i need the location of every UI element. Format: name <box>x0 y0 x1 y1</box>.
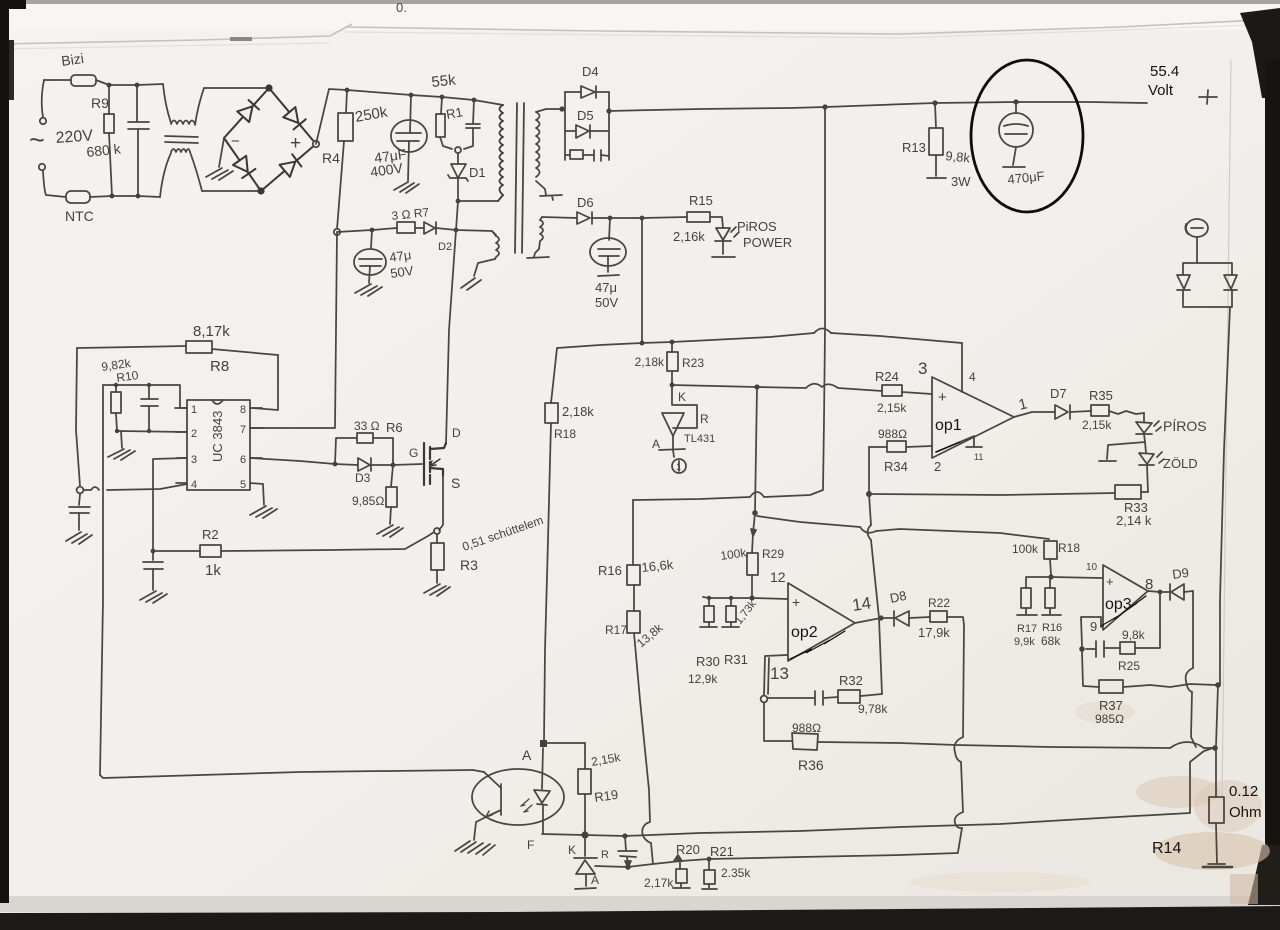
node 13 open <box>761 696 768 703</box>
resistor R18b 2.18k <box>545 348 558 423</box>
svg-text:R18: R18 <box>1058 541 1080 555</box>
capacitor C11 <box>768 691 823 705</box>
bottom rail to optocoupler <box>100 770 473 778</box>
op-amp op3 <box>1103 565 1148 630</box>
Vcc wire R4 node down to pin 7 <box>250 232 337 428</box>
EMI choke L1 <box>160 84 204 197</box>
capacitor C1 <box>128 85 149 196</box>
svg-text:9: 9 <box>1090 619 1097 634</box>
diode D7 <box>1014 405 1070 419</box>
svg-text:2,15k: 2,15k <box>1082 418 1112 432</box>
TL431 U4 <box>574 835 597 889</box>
diode D10 left <box>1177 275 1190 290</box>
svg-text:100k: 100k <box>1012 542 1039 556</box>
resistor R4 250k <box>337 90 353 229</box>
svg-text:R29: R29 <box>762 547 784 561</box>
wire R8 right to pin 8 <box>252 355 278 410</box>
op1 pointer <box>936 442 960 452</box>
resistor R13 9.8k 3W <box>927 103 946 178</box>
node bridge plus <box>313 141 319 147</box>
svg-text:R17: R17 <box>1017 623 1037 635</box>
svg-text:5: 5 <box>240 479 246 491</box>
pin 3 wire <box>153 458 187 488</box>
svg-text:68k: 68k <box>1041 634 1061 648</box>
svg-text:988Ω: 988Ω <box>792 721 821 735</box>
AC line terminal <box>40 80 46 124</box>
resistor R24 2.15k <box>882 385 932 396</box>
D9 drop wire <box>1191 591 1196 747</box>
svg-text:R4: R4 <box>322 150 340 166</box>
svg-text:A: A <box>591 873 599 887</box>
transformer aux winding secondary-side <box>527 217 549 258</box>
source node <box>434 528 440 534</box>
svg-text:R20: R20 <box>676 842 700 857</box>
transformer core <box>515 103 524 253</box>
svg-text:G: G <box>409 446 418 460</box>
svg-text:33 Ω: 33 Ω <box>354 419 380 433</box>
resistor R3 0.51ohm <box>424 534 450 596</box>
wire 55V vertical x825 <box>633 107 825 500</box>
svg-text:op2: op2 <box>791 624 818 641</box>
svg-text:R37: R37 <box>1099 698 1123 713</box>
svg-text:8: 8 <box>240 404 246 416</box>
resistor R25 9.8k <box>1105 642 1135 654</box>
svg-text:R32: R32 <box>839 673 863 688</box>
diode D6 <box>542 212 610 224</box>
opto LED anode node <box>542 748 543 789</box>
svg-text:R31: R31 <box>724 652 748 667</box>
svg-text:R21: R21 <box>710 844 734 859</box>
svg-text:POWER: POWER <box>743 235 792 250</box>
op2 inverting pointer <box>790 631 845 659</box>
svg-text:R3: R3 <box>460 557 478 573</box>
wire R23 node to R24 <box>672 384 882 391</box>
resistor R27 9.9k <box>1017 588 1037 615</box>
R37 branch <box>1082 652 1099 687</box>
svg-text:R1: R1 <box>445 104 464 122</box>
fuse F1 "Bizi" <box>44 75 109 86</box>
svg-text:2,14 k: 2,14 k <box>1116 513 1152 528</box>
svg-text:0.: 0. <box>396 0 407 15</box>
diode D9 <box>1160 584 1193 600</box>
svg-text:UC 3843: UC 3843 <box>210 411 225 462</box>
wire aux to Vcc drop <box>641 218 643 343</box>
svg-text:ZÖLD: ZÖLD <box>1163 456 1198 471</box>
node input junctions <box>107 83 141 199</box>
svg-text:8: 8 <box>1145 576 1153 593</box>
timing cap C7 <box>140 488 167 603</box>
svg-text:2,18k: 2,18k <box>562 404 594 419</box>
diode D11 right <box>1224 275 1237 290</box>
resistor R7 3ohm <box>397 222 415 233</box>
svg-text:47μ: 47μ <box>595 280 617 295</box>
svg-text:10: 10 <box>1086 562 1098 573</box>
LED piros <box>1136 413 1161 434</box>
zener D1 <box>448 153 468 201</box>
svg-text:A: A <box>522 747 532 763</box>
svg-text:R36: R36 <box>798 757 824 773</box>
opto collector lead <box>473 770 484 772</box>
MOSFET Q1 <box>424 443 446 485</box>
diode D3 <box>335 458 393 471</box>
rectifier block frame D4/D5 <box>565 92 609 160</box>
svg-text:+: + <box>938 389 947 406</box>
resistor R30 12.9k <box>700 598 717 627</box>
node under R4 <box>334 229 340 235</box>
ground at bridge minus <box>206 138 233 180</box>
svg-text:D4: D4 <box>582 64 599 79</box>
R32/cap feedback of op2 <box>861 694 882 696</box>
IC U1 UC3843 <box>175 400 263 490</box>
transformer aux winding primary-side <box>461 231 499 290</box>
sense divider wire top <box>557 333 962 348</box>
TL431 U3 <box>659 385 697 473</box>
svg-text:9,9k: 9,9k <box>1014 636 1035 648</box>
ground at pin 5 <box>250 484 277 518</box>
svg-text:A: A <box>652 437 660 451</box>
snubber capacitor C3 <box>464 100 480 149</box>
svg-text:7: 7 <box>240 424 246 436</box>
svg-text:Bizi: Bizi <box>60 50 85 69</box>
svg-text:R: R <box>601 849 609 861</box>
svg-text:R23: R23 <box>682 356 704 370</box>
resistor R10 <box>111 385 121 431</box>
svg-text:R16: R16 <box>598 563 622 578</box>
resistor R14 shunt 0.12ohm <box>1203 748 1232 867</box>
svg-text:9,78k: 9,78k <box>858 702 888 716</box>
drain wire down <box>446 201 458 444</box>
node R1/C3 to D1 <box>455 147 461 153</box>
capacitor C2 47uF 400V <box>391 95 427 193</box>
svg-text:R17: R17 <box>605 623 627 637</box>
opto LED cathode lead <box>542 806 544 833</box>
resistor R15 <box>687 212 723 228</box>
resistor R2 1k <box>153 532 434 557</box>
svg-text:50V: 50V <box>595 295 618 310</box>
capacitor C9 47u 50V aux <box>354 230 386 296</box>
op3 inverting pointer <box>1101 596 1146 626</box>
marker ellipse around C10 <box>971 60 1083 212</box>
svg-text:4: 4 <box>191 479 197 491</box>
svg-text:TL431: TL431 <box>684 433 715 445</box>
resistor R34 988ohm <box>869 441 932 452</box>
return vertical to shunt <box>1216 685 1218 746</box>
wire zold to R33 <box>1147 465 1148 492</box>
resistor R22 17.9k <box>930 611 964 625</box>
svg-text:12,9k: 12,9k <box>688 672 718 686</box>
diode D2 <box>415 222 496 235</box>
capacitor C8 <box>618 836 637 870</box>
svg-text:988Ω: 988Ω <box>878 427 907 441</box>
resistor R19 2.15k <box>578 743 591 833</box>
wire R18b drop to opto anode <box>544 423 551 740</box>
node under R23 drop <box>755 387 757 511</box>
svg-text:~: ~ <box>29 125 45 155</box>
stub to common tap <box>1099 434 1145 461</box>
pin 4 wire to timing node <box>84 484 187 490</box>
ground under R10 <box>108 431 135 460</box>
svg-text:D: D <box>452 426 461 440</box>
capacitor C6 at pin4 node <box>66 494 92 544</box>
minus output terminal <box>1185 219 1208 263</box>
resistor R35 2.15k <box>1070 405 1144 416</box>
node R23 bottom <box>670 383 675 388</box>
diode D4 <box>581 86 596 98</box>
clamp row wire 3ohm/D2 <box>337 228 397 232</box>
svg-text:D2: D2 <box>438 241 452 253</box>
resistor R31 1.73k <box>722 598 739 627</box>
resistor R32 9.78k <box>824 690 860 703</box>
pin 6 wire <box>250 458 335 464</box>
resistor R20 2.17k <box>673 861 690 888</box>
resistor R36 988ohm <box>792 733 1213 750</box>
svg-text:2,16k: 2,16k <box>673 229 705 244</box>
svg-text:−: − <box>231 133 240 150</box>
diode D5 <box>576 125 590 138</box>
svg-text:D3: D3 <box>355 471 371 485</box>
resistor R23 2.18k <box>667 342 678 383</box>
snubber resistor in block <box>570 150 583 159</box>
resistor R26 68k <box>1042 577 1061 615</box>
svg-text:D1: D1 <box>469 165 486 180</box>
svg-text:R30: R30 <box>696 654 720 669</box>
wire R29 node to op2 plus <box>752 598 788 599</box>
svg-text:Ohm: Ohm <box>1229 804 1262 821</box>
svg-text:S: S <box>451 475 460 491</box>
svg-text:9,8k: 9,8k <box>945 148 972 166</box>
svg-text:F: F <box>527 838 534 852</box>
wire to bridge top <box>204 87 269 89</box>
svg-text:985Ω: 985Ω <box>1095 712 1124 726</box>
op3 feedback node <box>1135 592 1160 648</box>
svg-text:2: 2 <box>191 428 197 440</box>
svg-text:3: 3 <box>918 359 927 378</box>
svg-text:R8: R8 <box>210 358 229 375</box>
link to pin 13 <box>764 655 787 695</box>
svg-text:D9: D9 <box>1171 565 1190 582</box>
resistor R16 16.6k <box>627 565 640 611</box>
svg-text:+: + <box>1106 574 1114 589</box>
svg-text:17,9k: 17,9k <box>918 625 950 640</box>
op3 output node <box>1148 591 1160 592</box>
svg-text:55k: 55k <box>431 71 457 90</box>
op2 output wire node 14 <box>855 618 881 623</box>
resistor R18 100k <box>1044 541 1057 575</box>
svg-text:47μ: 47μ <box>388 247 412 265</box>
node aux rail split <box>640 216 645 221</box>
pin 2 wire <box>117 431 187 432</box>
ref wire TL431 <box>595 866 628 867</box>
wire input top <box>109 84 163 85</box>
resistor R33 2.14k <box>1115 485 1148 499</box>
bridge rectifier BR1 <box>224 85 316 193</box>
left rail vertical <box>100 385 103 775</box>
svg-text:11: 11 <box>974 452 983 462</box>
svg-text:9,8k: 9,8k <box>1122 628 1146 642</box>
svg-text:8,17k: 8,17k <box>193 323 230 340</box>
vertical feedback node to 14 <box>869 494 882 694</box>
diode D8 <box>881 611 930 626</box>
wire to bridge bottom <box>202 190 261 192</box>
op-amp op2 <box>788 583 855 661</box>
resistor R37 985ohm <box>1099 680 1216 693</box>
svg-text:R9: R9 <box>91 95 109 111</box>
LED power PIROS <box>712 227 739 257</box>
bottom wire W1 <box>542 748 1213 836</box>
optocoupler U2 <box>472 769 564 825</box>
svg-text:1: 1 <box>676 462 681 472</box>
node gate join <box>391 463 396 468</box>
svg-text:0.12: 0.12 <box>1229 783 1258 800</box>
sense wire to R16 divider <box>632 500 634 565</box>
reverse diode pair box <box>1183 263 1232 307</box>
svg-text:R34: R34 <box>884 459 908 474</box>
svg-text:+: + <box>792 594 800 610</box>
snubber capacitor in block <box>594 150 601 161</box>
svg-text:Volt: Volt <box>1148 82 1174 99</box>
wire input bottom <box>112 196 160 197</box>
svg-text:2.35k: 2.35k <box>721 866 751 880</box>
resistor R29 100k <box>747 513 758 596</box>
svg-text:PÍROS: PÍROS <box>1163 418 1207 434</box>
svg-text:op3: op3 <box>1105 596 1132 613</box>
capacitor C10 470uF <box>999 102 1033 167</box>
resistor R9 <box>104 85 114 196</box>
svg-text:op1: op1 <box>935 417 962 434</box>
feedback wire to R33 <box>869 493 1115 495</box>
output rail 55V <box>609 102 1147 111</box>
node secondary to block <box>559 106 564 111</box>
Vref top wire to pin 1 <box>103 385 187 408</box>
svg-text:3: 3 <box>191 454 197 466</box>
svg-text:2: 2 <box>934 459 941 474</box>
svg-text:2,18k: 2,18k <box>635 355 665 369</box>
resistor R21 2.35k <box>702 859 717 889</box>
bottom wire W2 <box>628 853 958 867</box>
svg-text:2,17k: 2,17k <box>644 876 674 890</box>
transformer primary winding <box>498 105 503 201</box>
svg-text:+: + <box>290 133 301 154</box>
svg-text:R: R <box>700 412 709 426</box>
svg-text:1: 1 <box>191 404 197 416</box>
resistor R5 9.85ohm <box>377 465 403 537</box>
B+ rail to transformer <box>316 89 347 144</box>
bracket return wire <box>958 625 964 852</box>
svg-text:R22: R22 <box>928 596 950 610</box>
node block output <box>606 108 611 113</box>
node D1 bottom <box>456 199 461 204</box>
svg-text:4: 4 <box>969 370 976 384</box>
svg-text:D7: D7 <box>1050 386 1067 401</box>
svg-text:R6: R6 <box>386 420 403 435</box>
svg-text:K: K <box>678 390 686 404</box>
svg-text:13: 13 <box>770 664 789 683</box>
return wire from diode pair down <box>1220 307 1230 685</box>
fuse F2 NTC <box>66 191 112 203</box>
resistor R6 33ohm bypass <box>335 433 393 465</box>
wire D1 to primary bottom <box>458 200 498 202</box>
svg-text:3W: 3W <box>951 174 971 189</box>
svg-text:55.4: 55.4 <box>1150 63 1179 80</box>
transformer secondary winding <box>536 109 562 200</box>
svg-text:R14: R14 <box>1152 840 1181 857</box>
svg-text:R15: R15 <box>689 193 713 208</box>
slant wire node to R18 <box>757 516 1049 539</box>
svg-text:PiROS: PiROS <box>737 219 777 234</box>
svg-text:9,85Ω: 9,85Ω <box>352 494 384 508</box>
R36 branch <box>764 703 792 741</box>
svg-text:12: 12 <box>770 569 786 585</box>
divider R30/R31 wires <box>703 597 752 598</box>
R18 node wires <box>1026 577 1051 588</box>
op-amp op1 <box>932 343 1014 458</box>
R34 drop to feedback node <box>868 447 870 492</box>
link to pin 9 <box>1081 617 1101 646</box>
capacitor C4 47u 50V <box>590 216 626 276</box>
plus mark output <box>1199 90 1217 104</box>
resistor R17 13.8k <box>627 611 653 864</box>
svg-text:R24: R24 <box>875 369 899 384</box>
svg-text:R35: R35 <box>1089 388 1113 403</box>
resistor R8 <box>77 341 278 355</box>
svg-text:K: K <box>568 843 576 857</box>
AC neutral terminal <box>39 164 66 197</box>
wire anode node to R19 <box>546 742 585 744</box>
svg-text:R2: R2 <box>202 527 219 542</box>
svg-text:R13: R13 <box>902 140 926 155</box>
svg-text:14: 14 <box>851 594 872 615</box>
svg-text:1k: 1k <box>205 562 221 579</box>
svg-text:2,15k: 2,15k <box>877 401 907 415</box>
node op3 inverting <box>1079 646 1085 652</box>
svg-text:D5: D5 <box>577 108 594 123</box>
wire R8 left down to pin4 node <box>76 348 80 486</box>
opto emitter ground <box>455 817 495 855</box>
svg-text:NTC: NTC <box>65 208 94 224</box>
svg-text:D6: D6 <box>577 195 594 210</box>
svg-text:R25: R25 <box>1118 659 1140 673</box>
LED zold <box>1139 442 1164 465</box>
svg-text:R16: R16 <box>1042 622 1062 634</box>
capacitor C5 <box>141 385 158 431</box>
resistor R1 <box>436 97 452 149</box>
svg-text:6: 6 <box>240 454 246 466</box>
capacitor C12 <box>1086 641 1104 657</box>
svg-text:R18: R18 <box>554 427 576 441</box>
